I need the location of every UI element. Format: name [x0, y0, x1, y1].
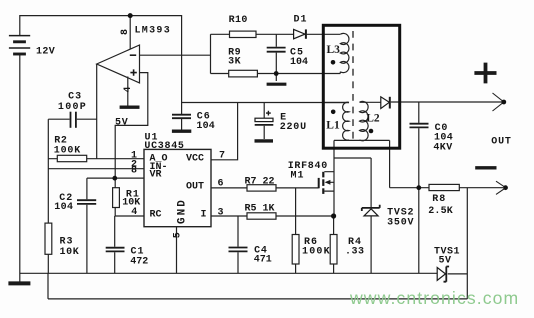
svg-text:471: 471 [254, 255, 272, 266]
svg-text:100P: 100P [58, 102, 87, 113]
svg-text:D1: D1 [294, 15, 308, 26]
svg-text:3K: 3K [228, 57, 241, 68]
svg-text:8: 8 [120, 29, 131, 35]
svg-text:VR: VR [150, 170, 162, 181]
svg-text:104: 104 [290, 57, 308, 68]
svg-text:RC: RC [150, 210, 162, 221]
svg-text:2.5K: 2.5K [428, 206, 453, 217]
svg-text:C3: C3 [68, 91, 82, 102]
svg-text:5V: 5V [115, 118, 129, 129]
svg-text:4: 4 [131, 207, 137, 218]
svg-text:www.cntronics.com: www.cntronics.com [349, 288, 519, 308]
svg-text:350V: 350V [387, 217, 414, 228]
svg-text:100K: 100K [54, 146, 81, 157]
svg-text:220U: 220U [280, 122, 307, 133]
svg-text:7: 7 [219, 151, 225, 162]
svg-text:3: 3 [218, 208, 224, 219]
svg-text:M1: M1 [291, 171, 305, 182]
svg-text:100K: 100K [302, 246, 331, 257]
svg-text:12V: 12V [36, 47, 55, 58]
svg-text:R7 22: R7 22 [245, 177, 275, 188]
svg-text:L1: L1 [326, 119, 340, 131]
svg-text:.33: .33 [345, 246, 365, 257]
svg-text:R8: R8 [432, 194, 446, 205]
svg-text:104: 104 [54, 202, 73, 213]
svg-text:GND: GND [177, 198, 189, 224]
svg-text:472: 472 [130, 256, 148, 267]
svg-text:L3: L3 [327, 44, 341, 56]
svg-text:VCC: VCC [186, 154, 204, 165]
svg-text:LM393: LM393 [135, 26, 172, 37]
svg-text:UC3845: UC3845 [144, 141, 184, 152]
svg-text:6: 6 [218, 179, 224, 190]
svg-text:5: 5 [173, 232, 184, 238]
svg-text:OUT: OUT [491, 137, 511, 148]
svg-text:4KV: 4KV [433, 143, 452, 154]
svg-text:I: I [201, 210, 207, 221]
svg-text:4: 4 [123, 86, 134, 92]
svg-text:L2: L2 [366, 112, 380, 124]
svg-text:R5 1K: R5 1K [245, 204, 275, 215]
svg-text:R10: R10 [229, 15, 248, 26]
svg-text:104: 104 [196, 121, 215, 132]
svg-text:10K: 10K [60, 247, 80, 258]
svg-text:OUT: OUT [186, 181, 204, 192]
svg-text:8: 8 [131, 166, 137, 177]
svg-text:5V: 5V [439, 256, 452, 267]
